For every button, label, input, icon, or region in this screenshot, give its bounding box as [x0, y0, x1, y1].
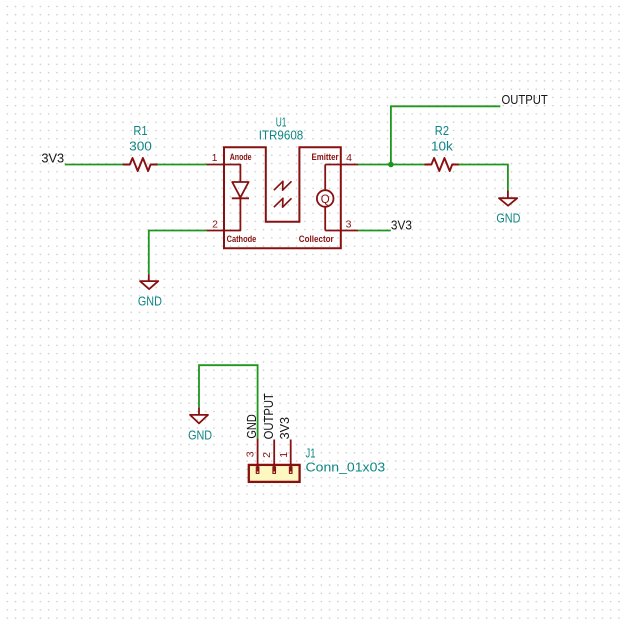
- svg-text:3: 3: [245, 451, 257, 457]
- svg-text:Q: Q: [321, 194, 330, 206]
- ground GND (right): [496, 190, 520, 225]
- svg-text:OUTPUT: OUTPUT: [262, 393, 276, 440]
- ground GND (mid-left): [138, 274, 162, 308]
- svg-text:R1: R1: [133, 123, 147, 138]
- svg-text:Cathode: Cathode: [227, 234, 257, 245]
- wire R2 to GND: [459, 165, 508, 191]
- wire U1 pin 2 to GND: [149, 231, 207, 275]
- svg-text:GND: GND: [188, 428, 212, 443]
- U1 pin 2: [207, 230, 224, 232]
- svg-text:4: 4: [346, 152, 352, 164]
- U1 pin 1: [207, 164, 224, 166]
- svg-text:3V3: 3V3: [41, 152, 64, 166]
- J1 pin 2: [273, 440, 276, 474]
- svg-text:1: 1: [278, 452, 290, 458]
- wire junction to OUTPUT: [391, 106, 500, 164]
- svg-text:GND: GND: [138, 294, 162, 309]
- J1 pin 3: [256, 438, 259, 473]
- svg-text:2: 2: [212, 219, 218, 231]
- svg-text:Emitter: Emitter: [312, 152, 339, 163]
- wire U1 pin 4 to R2: [358, 164, 425, 166]
- U1 LED diode: [224, 165, 249, 231]
- U1 pin 4: [341, 164, 358, 166]
- svg-text:300: 300: [129, 139, 152, 154]
- svg-text:2: 2: [261, 452, 273, 458]
- optocoupler U1 body: [224, 147, 341, 248]
- svg-text:10k: 10k: [431, 139, 453, 154]
- svg-text:GND: GND: [245, 414, 259, 438]
- resistor R1: [124, 158, 158, 171]
- svg-text:R2: R2: [435, 123, 449, 138]
- U1 phototransistor: [317, 165, 341, 231]
- wire 3V3 to R1: [65, 164, 124, 166]
- J1 pin 1: [289, 440, 292, 474]
- svg-text:OUTPUT: OUTPUT: [502, 93, 549, 107]
- wire U1 pin 3 to 3V3: [358, 230, 391, 232]
- svg-text:Collector: Collector: [299, 234, 334, 245]
- svg-text:1: 1: [212, 152, 218, 164]
- svg-text:3V3: 3V3: [278, 417, 292, 439]
- junction: [388, 162, 394, 168]
- svg-text:GND: GND: [496, 210, 520, 225]
- ground GND (bottom): [188, 407, 212, 442]
- connector J1 body: [249, 465, 300, 482]
- svg-text:Conn_01x03: Conn_01x03: [306, 460, 386, 475]
- svg-text:J1: J1: [306, 445, 316, 460]
- svg-text:ITR9608: ITR9608: [259, 127, 304, 142]
- resistor R2: [425, 158, 459, 171]
- wire bottom GND to J1 pin 3: [199, 365, 258, 438]
- U1 pin 3: [341, 230, 358, 232]
- svg-text:3: 3: [346, 218, 352, 230]
- svg-text:3V3: 3V3: [391, 218, 412, 232]
- svg-text:Anode: Anode: [230, 152, 252, 163]
- U1 slot marks: [274, 181, 292, 207]
- wire R1 to U1 pin 1: [157, 164, 206, 166]
